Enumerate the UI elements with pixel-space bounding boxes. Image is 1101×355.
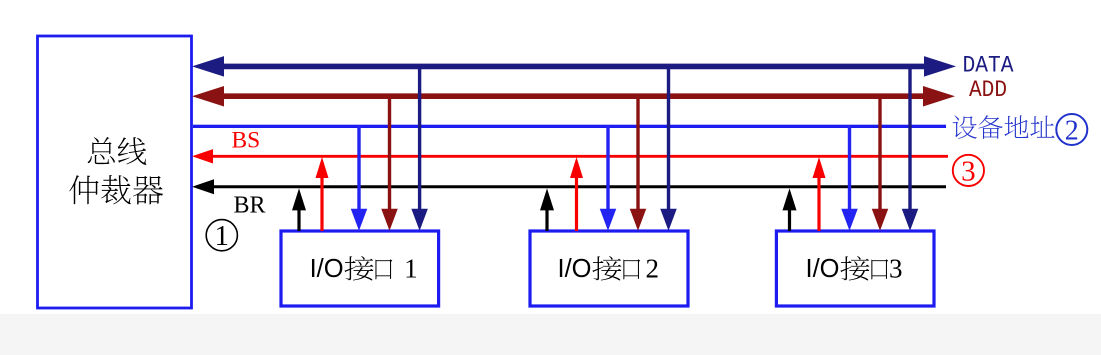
BS grant arrow up (box 3) bbox=[813, 157, 826, 231]
circled 2 bbox=[1056, 114, 1087, 146]
arbiter label line1 总线 bbox=[88, 137, 147, 165]
I/O interface box 1 bbox=[281, 231, 439, 306]
BR request arrow up (box 1) bbox=[292, 188, 306, 231]
svg-text:DATA: DATA bbox=[963, 52, 1014, 78]
ADD arrow down (box 3) bbox=[872, 94, 889, 231]
ADD arrow down (box 1) bbox=[381, 94, 398, 231]
circled 1 bbox=[206, 220, 237, 252]
DATA bus (double arrow) bbox=[192, 56, 956, 77]
bus arbiter box bbox=[38, 36, 192, 308]
BS grant arrow up (box 1) bbox=[316, 157, 329, 231]
label 接口 of box 2 bbox=[592, 256, 640, 280]
device-address arrow down (box 1) bbox=[351, 125, 368, 231]
device address line 设备地址 bbox=[193, 125, 946, 128]
svg-text:2: 2 bbox=[646, 254, 660, 284]
svg-text:2: 2 bbox=[1065, 115, 1079, 146]
BS grant arrow up (box 2) bbox=[570, 157, 583, 231]
svg-text:BS: BS bbox=[232, 127, 261, 153]
device-address arrow down (box 3) bbox=[841, 125, 858, 231]
I/O interface box 3 bbox=[776, 231, 934, 306]
svg-text:3: 3 bbox=[961, 156, 976, 188]
svg-text:1: 1 bbox=[404, 254, 418, 284]
DATA arrow down (box 2) bbox=[660, 64, 677, 231]
ADD arrow down (box 2) bbox=[630, 94, 647, 231]
I/O interface box 2 bbox=[530, 231, 688, 306]
BR request arrow up (box 3) bbox=[783, 188, 797, 231]
BS line (bus grant, left arrow) bbox=[192, 149, 948, 163]
BR request arrow up (box 2) bbox=[540, 188, 554, 231]
label 接口 of box 1 bbox=[344, 256, 392, 280]
svg-text:BR: BR bbox=[234, 193, 266, 219]
arbiter label line2 仲裁器 bbox=[69, 175, 163, 204]
label 接口 of box 3 bbox=[840, 256, 888, 280]
DATA arrow down (box 1) bbox=[411, 64, 428, 231]
svg-text:3: 3 bbox=[889, 254, 903, 284]
svg-text:ADD: ADD bbox=[969, 77, 1007, 103]
DATA arrow down (box 3) bbox=[902, 64, 919, 231]
BR line (bus request, left arrow) bbox=[192, 179, 946, 194]
ADD bus (double arrow) bbox=[192, 86, 955, 107]
page footer strip bbox=[0, 314, 1101, 355]
svg-text:I/O: I/O bbox=[558, 255, 592, 283]
svg-text:I/O: I/O bbox=[310, 255, 344, 283]
device-address arrow down (box 2) bbox=[600, 125, 617, 231]
circled 3 bbox=[953, 155, 984, 188]
svg-text:I/O: I/O bbox=[806, 255, 840, 283]
label 设备地址 bbox=[953, 115, 1055, 139]
svg-text:1: 1 bbox=[215, 220, 230, 252]
